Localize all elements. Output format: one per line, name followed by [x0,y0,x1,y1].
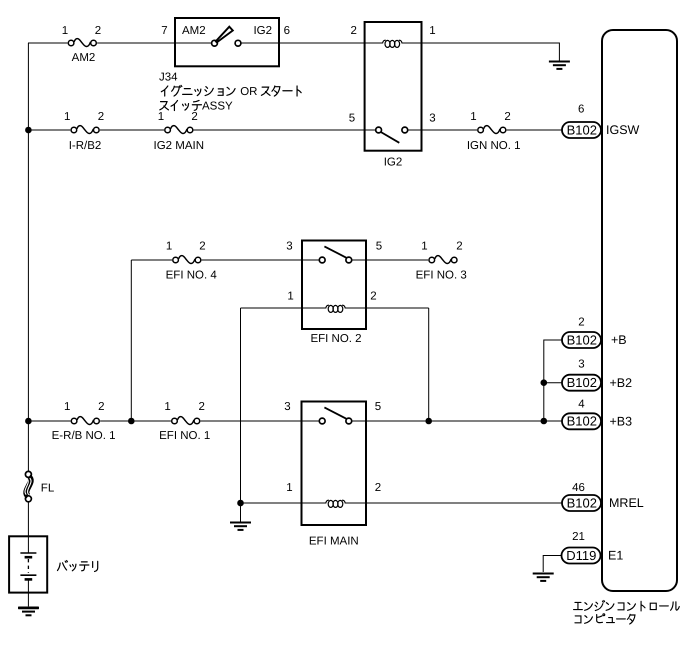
wire: EFI NO.4 branch vertical [130,260,132,421]
svg-text:IGN NO. 1: IGN NO. 1 [467,140,521,152]
svg-text:IG2: IG2 [384,157,403,169]
svg-text:+B2: +B2 [610,376,633,390]
connector B102 pin3 +B2 [562,359,632,391]
fuse E-R/B NO.1 [52,401,116,442]
svg-text:1: 1 [421,241,427,253]
svg-text:B102: B102 [567,375,597,390]
svg-text:IGSW: IGSW [606,123,640,137]
svg-text:2: 2 [98,111,104,123]
svg-text:2: 2 [370,290,376,302]
svg-text:2: 2 [504,111,510,123]
wire: +B link vertical and stubs [544,340,562,421]
svg-text:B102: B102 [567,332,597,347]
svg-text:I-R/B2: I-R/B2 [69,140,102,152]
fuse IG2 MAIN [154,111,204,152]
svg-text:+B3: +B3 [610,414,633,428]
svg-text:EFI NO. 2: EFI NO. 2 [310,333,361,345]
svg-text:1: 1 [64,401,70,413]
label battery katakana [58,561,98,572]
wire: left bus vertical from top row to battery [27,43,29,536]
wire: row G main horizontal [28,420,561,422]
svg-text:2: 2 [198,401,204,413]
svg-text:2: 2 [199,241,205,253]
svg-text:2: 2 [456,241,462,253]
wire: row D EFI NO.2 coil row [241,307,429,309]
svg-text:5: 5 [375,401,381,413]
wire: row C EFI NO.4 / EFI NO.2 switch / EFI NO.3 [131,259,428,261]
svg-text:6: 6 [578,103,584,115]
svg-text:2: 2 [95,25,101,37]
svg-text:AM2: AM2 [182,25,206,37]
switch box J34 ignition [161,18,290,66]
wire: D119 E1 stub to ground [543,556,561,573]
relay IG2 [349,22,436,169]
svg-text:2: 2 [375,482,381,494]
fuse EFI NO.3 [416,241,467,282]
svg-text:B102: B102 [567,414,597,429]
relay EFI NO.2 [286,241,382,346]
svg-text:7: 7 [161,25,167,37]
junction node row G left bus [25,418,32,425]
junction node EFI NO.2 coil pin2 at row G [425,418,432,425]
svg-text:IG2: IG2 [253,25,272,37]
junction node EFI NO.4 branch at row G [128,418,135,425]
svg-text:1: 1 [286,482,292,494]
junction node row B left bus [25,127,32,134]
svg-text:EFI MAIN: EFI MAIN [309,536,359,548]
relay EFI MAIN [284,401,381,547]
wire: row H EFI MAIN coil row to MREL [241,502,562,504]
svg-text:EFI NO. 1: EFI NO. 1 [159,430,210,442]
connector B102 pin46 MREL [562,482,644,511]
ground E1 [533,574,554,581]
svg-text:J34: J34 [159,72,178,84]
svg-text:21: 21 [572,531,585,543]
svg-text:1: 1 [62,25,68,37]
svg-text:+B: +B [611,333,627,347]
svg-text:B102: B102 [567,122,597,137]
connector B102 pin4 +B3 [562,399,632,430]
svg-text:6: 6 [284,25,290,37]
wire: ground stub below EFI NO.2/EFI MAIN coil junction [240,503,242,522]
svg-text:E1: E1 [608,549,623,563]
svg-text:IG2 MAIN: IG2 MAIN [154,140,204,152]
svg-text:OR: OR [240,86,257,98]
svg-text:MREL: MREL [609,496,644,510]
svg-text:5: 5 [376,241,382,253]
svg-text:1: 1 [64,111,70,123]
svg-text:1: 1 [166,241,172,253]
svg-text:1: 1 [158,111,164,123]
connector D119 pin21 E1 [562,531,624,564]
ground battery [18,608,39,615]
fuse AM2 [62,25,101,64]
svg-text:AM2: AM2 [72,52,96,64]
svg-text:2: 2 [350,25,356,37]
svg-text:B102: B102 [567,495,597,510]
svg-text:FL: FL [41,482,55,494]
svg-text:3: 3 [429,112,435,124]
svg-text:D119: D119 [566,548,596,563]
fusible link FL [25,471,55,501]
wire: row B IGSW row [28,129,561,131]
svg-text:2: 2 [98,401,104,413]
svg-text:3: 3 [286,241,292,253]
svg-text:4: 4 [578,399,585,411]
svg-text:2: 2 [578,317,584,329]
svg-text:5: 5 [349,112,355,124]
battery [9,536,47,592]
connector B102 pin2 +B [562,317,627,348]
svg-text:3: 3 [284,401,290,413]
svg-text:ASSY: ASSY [202,100,233,112]
ECU box [602,30,677,591]
wire: EFI NO.2 coil pin2 vertical down to +B3 row [428,308,430,421]
svg-text:1: 1 [429,25,435,37]
svg-text:46: 46 [572,482,585,494]
wire: EFI NO.2 coil pin1 vertical to ground junction [240,308,242,521]
svg-text:1: 1 [287,290,293,302]
svg-text:1: 1 [470,111,476,123]
junction node ground stub at row H [237,500,244,507]
svg-text:1: 1 [164,401,170,413]
svg-text:2: 2 [191,111,197,123]
ground ignition relay pin1 [549,62,570,69]
label J34 ignition or start switch assy [159,72,301,113]
junction node +B link at row G [541,418,548,425]
svg-text:3: 3 [578,359,584,371]
svg-text:E-R/B NO. 1: E-R/B NO. 1 [52,430,116,442]
wire: battery to ground [27,593,29,607]
ground EFI relay coils [230,523,251,530]
wire: row A horizontal segments [28,43,559,62]
label engine control computer katakana [574,601,680,624]
connector B102 pin6 IGSW [562,103,640,138]
svg-text:EFI NO. 4: EFI NO. 4 [166,270,218,282]
svg-text:EFI NO. 3: EFI NO. 3 [416,270,467,282]
junction node +B link at +B2 [541,379,548,386]
fuse EFI NO.1 [159,401,210,442]
fuse EFI NO.4 [166,241,218,282]
fuse I-R/B2 [64,111,104,152]
fuse IGN NO.1 [467,111,521,152]
